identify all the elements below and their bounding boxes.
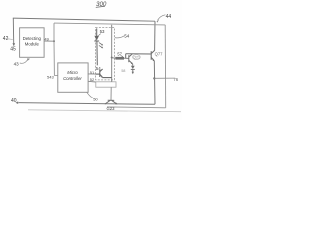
optocoupler dashed box: [96, 28, 115, 80]
terminal 76 wire: [154, 77, 175, 79]
svg-text:76: 76: [173, 77, 178, 82]
svg-text:40: 40: [11, 98, 17, 104]
driver component box: [96, 82, 116, 87]
svg-text:543: 543: [47, 74, 54, 79]
Detecting Module block: [20, 28, 44, 58]
svg-text:Q77: Q77: [155, 52, 164, 57]
svg-text:45: 45: [10, 46, 16, 52]
svg-text:44: 44: [166, 14, 172, 20]
oval label Q21: [133, 55, 141, 60]
junction dot: [111, 57, 113, 59]
svg-text:57: 57: [117, 51, 122, 56]
transistor G23 at bottom rail: [105, 100, 117, 104]
svg-text:Controller: Controller: [63, 76, 82, 81]
faint page line at bottom: [28, 110, 181, 112]
svg-text:50: 50: [93, 97, 98, 102]
wire 51: controller to optocoupler: [88, 73, 96, 75]
wire: rail B top: [54, 23, 166, 108]
transistor Q77: [151, 50, 154, 60]
transistor Q21: [126, 54, 152, 64]
label 50 with leader from controller: [87, 92, 93, 97]
wire: Q77 collector bus: [154, 21, 156, 50]
svg-text:43: 43: [14, 61, 20, 66]
internal vertical wire of coupler: [111, 25, 113, 82]
junction dot: [153, 77, 155, 79]
svg-text:Detecting: Detecting: [23, 36, 42, 41]
svg-text:G23: G23: [107, 106, 116, 111]
Q77 emitter bus down to rail: [153, 61, 156, 105]
LED of optocoupler: [94, 28, 99, 65]
svg-text:Q21: Q21: [133, 56, 140, 60]
svg-text:54: 54: [124, 33, 130, 38]
svg-text:51: 51: [90, 70, 95, 75]
wire 52: controller to Q23: [88, 80, 96, 83]
svg-text:52: 52: [90, 77, 95, 82]
light arrows: [99, 43, 103, 48]
svg-text:Micro: Micro: [67, 70, 78, 75]
node junction: [53, 40, 55, 42]
wire: top rail A: [13, 18, 155, 21]
diode 58 below Q21: [131, 66, 135, 69]
figure number 300: [96, 1, 107, 8]
svg-text:Module: Module: [25, 42, 40, 47]
wire: bus down to micro controller: [54, 41, 58, 75]
bottom rail with terminal 40: [18, 103, 155, 105]
resistor 57: [112, 57, 116, 59]
wire: module output to bus, label 49: [44, 40, 54, 42]
svg-text:49: 49: [44, 36, 49, 41]
phototransistor of optocoupler: [96, 69, 112, 78]
svg-text:58: 58: [121, 69, 125, 73]
wire down to G23: [110, 87, 112, 100]
input terminal 42 (vertical wire with down arrow): [12, 18, 14, 43]
Micro Controller block: [58, 63, 88, 92]
